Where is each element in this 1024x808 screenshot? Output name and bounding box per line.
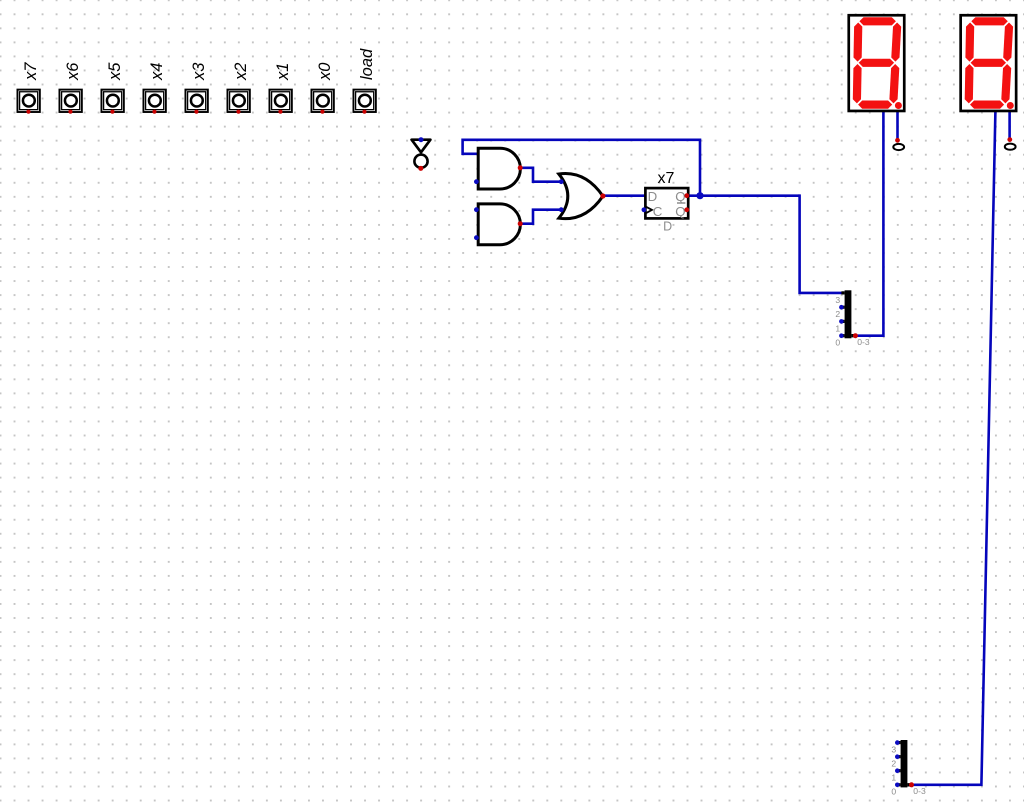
svg-text:x1: x1 xyxy=(274,63,292,81)
S2 leg bit 0 xyxy=(897,783,900,786)
svg-text:0: 0 xyxy=(891,787,896,797)
button load xyxy=(353,48,375,114)
AND gate A1 output dot xyxy=(518,165,523,170)
OR gate output dot xyxy=(600,193,605,198)
svg-text:x6: x6 xyxy=(64,62,82,81)
decimal point xyxy=(895,102,902,109)
S2 combined stub xyxy=(907,783,911,786)
D flip-flop U2 xyxy=(645,170,688,233)
svg-text:C: C xyxy=(653,204,663,219)
FF Q output dot xyxy=(684,193,689,198)
svg-text:0: 0 xyxy=(835,338,840,348)
splitter S2 xyxy=(891,740,926,797)
svg-text:Q: Q xyxy=(675,189,685,204)
button x3 xyxy=(185,62,207,114)
S1 leg bit 3 xyxy=(841,291,844,294)
svg-text:x3: x3 xyxy=(190,62,208,81)
7-segment display DS2 xyxy=(961,15,1017,111)
svg-text:x0: x0 xyxy=(316,62,334,81)
button x4 xyxy=(143,63,165,114)
S2 leg bit 2 xyxy=(897,755,900,758)
svg-text:D: D xyxy=(663,219,672,233)
output pin P1 red dot xyxy=(895,138,900,143)
OR gate O1 xyxy=(559,174,603,219)
S1 leg dots xyxy=(839,305,844,310)
FF clock chevron xyxy=(645,206,652,213)
NOT gate input dot xyxy=(419,137,424,142)
seg g (middle) xyxy=(859,59,894,67)
S2 leg bit 1 xyxy=(897,769,900,772)
AND gate A1 input 2 dot xyxy=(474,179,479,184)
button x1 xyxy=(269,63,291,114)
svg-text:x5: x5 xyxy=(106,62,124,81)
S2 trunk bar xyxy=(901,740,908,787)
seg c (bottom-right) xyxy=(1001,64,1011,103)
FF C input dot xyxy=(642,207,647,212)
wire AND2 output to OR input 2 xyxy=(521,210,562,224)
seg g (middle) xyxy=(971,59,1006,67)
7-segment display DS1 xyxy=(849,15,905,111)
svg-text:1: 1 xyxy=(891,773,896,783)
seg a (top) xyxy=(971,17,1008,25)
FF Qn output dot xyxy=(684,207,689,212)
svg-text:2: 2 xyxy=(891,759,896,769)
output pin P1 (oval) xyxy=(893,144,904,150)
output pin P2 red dot xyxy=(1007,137,1012,142)
S2 leg dots xyxy=(895,740,900,745)
splitter S1 xyxy=(835,290,869,347)
svg-text:Q: Q xyxy=(675,204,685,219)
S1 leg bit 2 xyxy=(841,306,844,309)
svg-text:load: load xyxy=(358,48,376,80)
S1 combined stub xyxy=(851,334,855,337)
seg d (bottom) xyxy=(858,101,892,109)
S1 leg bit 1 xyxy=(841,320,844,323)
S1 trunk bar xyxy=(845,290,852,338)
button x7 xyxy=(17,62,39,114)
seg f (top-left) xyxy=(965,23,974,62)
OR gate input dots xyxy=(559,179,564,184)
wire splitter S1 out up to display DS1 xyxy=(853,112,883,336)
svg-text:2: 2 xyxy=(835,309,840,319)
NOT gate output dot xyxy=(418,166,423,171)
AND gate A2 xyxy=(478,204,520,245)
svg-text:x2: x2 xyxy=(232,63,250,81)
seg c (bottom-right) xyxy=(889,64,899,103)
AND gate A1 xyxy=(478,148,520,189)
wire node vertical drop xyxy=(699,139,702,196)
svg-text:D: D xyxy=(648,189,658,204)
svg-text:0-3: 0-3 xyxy=(913,786,926,796)
button x5 xyxy=(101,62,123,114)
NOT gate U1 (facing south, unconnected) xyxy=(412,140,431,168)
svg-text:3: 3 xyxy=(891,745,896,755)
svg-text:x7: x7 xyxy=(658,170,675,187)
output pin P2 (oval) xyxy=(1005,144,1016,150)
wire OR output to FF D input xyxy=(603,194,646,197)
wire DS2 dp pin to output pin xyxy=(1008,112,1011,140)
S1 combined output dot xyxy=(853,333,858,338)
seg a (top) xyxy=(859,17,896,25)
seg e (bottom-left) xyxy=(853,64,862,103)
svg-text:0-3: 0-3 xyxy=(857,337,870,347)
seg b (top-right) xyxy=(891,23,901,62)
seg f (top-left) xyxy=(854,23,863,62)
wire down to splitter S1 xyxy=(800,194,845,293)
wire DS1 dp pin to output pin xyxy=(896,112,899,141)
FF body xyxy=(645,188,688,218)
S1 leg bit 0 xyxy=(841,334,844,337)
wire AND1 output to OR input 1 xyxy=(521,168,562,182)
wire feedback top horizontal xyxy=(463,140,700,154)
seg e (bottom-left) xyxy=(965,64,974,103)
decimal point xyxy=(1007,102,1014,109)
button x2 xyxy=(227,63,249,114)
svg-text:x4: x4 xyxy=(148,63,166,81)
S2 leg bit 3 xyxy=(897,741,900,744)
S2 combined output dot xyxy=(909,782,914,787)
button x6 xyxy=(59,62,81,114)
svg-text:3: 3 xyxy=(835,295,840,305)
seg d (bottom) xyxy=(970,101,1004,109)
button x0 xyxy=(311,62,333,114)
AND gate A2 input dots xyxy=(474,207,479,212)
svg-text:1: 1 xyxy=(835,323,840,333)
seg b (top-right) xyxy=(1003,23,1013,62)
wire FF Q output through node to right xyxy=(688,194,800,197)
svg-text:x7: x7 xyxy=(22,62,40,81)
FF overbar of inverted Q xyxy=(677,202,685,204)
node junction xyxy=(696,192,703,199)
AND gate A2 output dot xyxy=(518,221,523,226)
wire DS2 data diagonal down to splitter S2 xyxy=(908,112,995,785)
